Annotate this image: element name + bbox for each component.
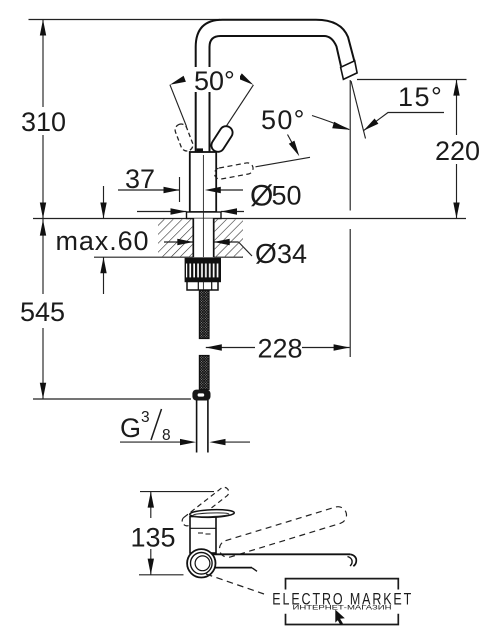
svg-text:228: 228 (258, 334, 303, 364)
svg-text:3: 3 (141, 409, 150, 426)
svg-text:50°: 50° (194, 66, 235, 96)
svg-text:34: 34 (277, 239, 307, 269)
svg-text:ИНТЕРНЕТ-МАГАЗИН: ИНТЕРНЕТ-МАГАЗИН (293, 604, 392, 611)
svg-text:8: 8 (162, 427, 171, 444)
svg-text:37: 37 (125, 164, 155, 194)
svg-text:310: 310 (21, 107, 66, 137)
svg-text:220: 220 (435, 136, 480, 166)
svg-text:Ø: Ø (250, 180, 273, 213)
svg-text:max.60: max.60 (56, 226, 150, 256)
svg-text:50: 50 (272, 181, 302, 211)
svg-text:Ø: Ø (255, 238, 277, 269)
svg-text:50°: 50° (261, 105, 306, 135)
svg-text:545: 545 (20, 297, 65, 327)
svg-text:15°: 15° (398, 82, 443, 112)
svg-text:135: 135 (131, 523, 176, 553)
svg-text:G: G (120, 413, 141, 443)
